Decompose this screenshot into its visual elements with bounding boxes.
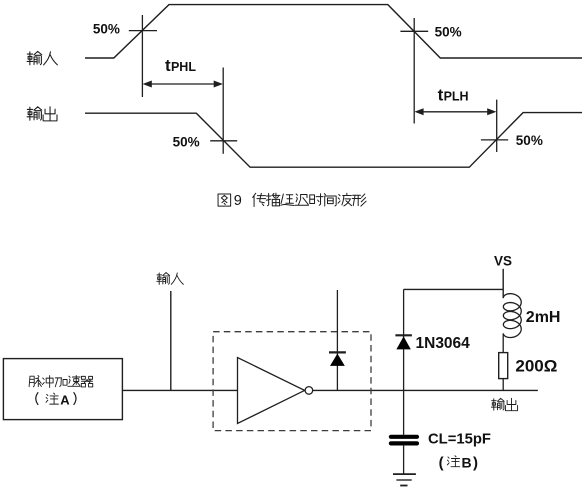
node tPHL dimension arrow [143, 81, 223, 88]
svg-text:2mH: 2mH [526, 309, 561, 326]
inductor L1 coil [503, 294, 521, 353]
svg-text:VS: VS [494, 253, 512, 268]
node box label row1 脉冲加速器 [29, 375, 93, 387]
diode D2 1N3064 [395, 289, 412, 435]
svg-text:(: ( [439, 454, 444, 471]
node input label 输入 (circuit) [157, 273, 184, 285]
node 50% crossing mark on input rising edge [129, 15, 157, 97]
node U1 inversion bubble [305, 387, 313, 395]
node box label row2 （注A） [36, 392, 76, 407]
wire output waveform trace [85, 113, 582, 168]
svg-text:50%: 50% [173, 134, 200, 149]
svg-text:50%: 50% [435, 25, 462, 40]
node (注B) note label [439, 454, 478, 471]
svg-text:50%: 50% [516, 133, 543, 148]
diode D1 internal clamp [329, 290, 346, 390]
wire top horizontal to VS [404, 288, 504, 290]
node output label 输出 [491, 398, 517, 410]
svg-text:50%: 50% [93, 22, 120, 37]
wire input stub vertical [170, 291, 172, 390]
svg-text:9: 9 [234, 193, 242, 209]
resistor R1 200 ohm [499, 353, 508, 391]
pulse accelerator box 脉冲加速器(注A) [3, 359, 122, 420]
svg-text:A: A [60, 392, 70, 407]
svg-text:1N3064: 1N3064 [416, 335, 471, 352]
node figure caption 图9 传播延迟时间波形 [218, 193, 366, 209]
wire input waveform trace [85, 5, 582, 58]
wire main horizontal net [122, 389, 538, 391]
node 50% crossing mark on output falling edge [210, 68, 237, 154]
node output waveform label 输出 [27, 107, 57, 121]
svg-text:200Ω: 200Ω [515, 357, 557, 376]
node 50% crossing mark on input falling edge [400, 18, 428, 124]
node tPLH dimension arrow [414, 108, 496, 115]
node 50% crossing mark on output rising edge [481, 100, 508, 152]
dashed device-under-test box [213, 332, 371, 431]
svg-text:CL=15pF: CL=15pF [428, 431, 491, 447]
svg-text:): ) [473, 454, 478, 471]
capacitor CL load cap [391, 437, 417, 474]
ground symbol [393, 474, 416, 485]
op-amp U1 inverter triangle [238, 358, 305, 424]
power VS supply stub [502, 269, 504, 298]
svg-text:B: B [462, 454, 472, 470]
node input waveform label 输入 [27, 51, 57, 64]
